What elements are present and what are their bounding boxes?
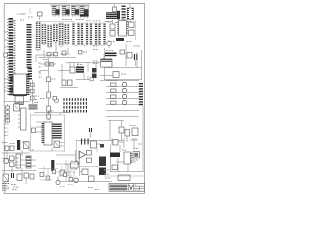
wire bc mesh — [56, 160, 78, 182]
transistor Q9 — [53, 97, 59, 103]
label top-right — [105, 22, 132, 23]
capacitor C1 — [47, 53, 51, 56]
wire h140 — [76, 140, 124, 142]
capacitor C3 — [60, 51, 70, 55]
capacitor C14 — [87, 139, 89, 145]
resistor R13 — [111, 101, 117, 104]
resistor R12 — [111, 95, 117, 98]
transistor Q5 — [122, 82, 126, 86]
wire mid net — [64, 160, 80, 176]
capacitor C13 — [84, 139, 86, 145]
IC U27 — [17, 140, 20, 150]
IC U19 — [12, 74, 28, 96]
capacitor bank C4-C6 — [31, 80, 35, 104]
IC U8 — [48, 25, 52, 49]
diode D3 — [119, 121, 124, 141]
label bc — [60, 185, 73, 187]
resistor R16 — [87, 151, 92, 156]
resistor R19 — [10, 156, 15, 161]
resistor network RN1 — [106, 11, 120, 20]
capacitor C18 — [64, 173, 67, 177]
resistor R22 — [30, 174, 34, 179]
label mid-left col — [39, 63, 43, 77]
wire top pins — [76, 76, 94, 81]
wire h170 — [2, 170, 36, 172]
U4 pin bar — [80, 15, 89, 17]
wire mid L — [36, 52, 55, 62]
transistor Q7 — [122, 94, 126, 98]
diode D2 — [107, 20, 115, 36]
wire long vert — [76, 150, 80, 176]
label left margin — [5, 32, 8, 47]
label bl rows — [2, 142, 34, 150]
resistor R28 — [112, 165, 118, 170]
wire mid bus2 — [58, 63, 100, 81]
wire hdr stub — [59, 113, 61, 115]
wire bc net — [38, 166, 58, 180]
wire band top — [36, 20, 74, 22]
IC U2 — [62, 6, 70, 17]
wire top bus — [50, 4, 90, 6]
IC U17 — [27, 24, 32, 68]
resistor R27 — [89, 176, 95, 182]
wire loop right — [105, 48, 142, 80]
crystal Y2 — [14, 101, 20, 111]
wire into U23 — [36, 122, 44, 132]
wire h1815 — [60, 181, 112, 183]
transistor Q10 — [74, 140, 99, 170]
oscillator X1 — [107, 40, 111, 48]
bridge rectifier BR2 — [24, 142, 30, 149]
pin header JP2 — [64, 98, 86, 112]
label rb2 — [132, 139, 142, 144]
regulator VR1 — [91, 141, 105, 152]
IC U5 — [127, 4, 133, 20]
relay K1 — [70, 67, 75, 73]
transistor Q8 — [122, 100, 126, 104]
resistor R20 — [10, 162, 15, 167]
wire long bus — [108, 120, 124, 122]
resistor R23 — [40, 173, 44, 177]
connector J3 — [139, 83, 143, 106]
wire rb top — [112, 138, 138, 152]
capacitor C8 — [127, 53, 132, 59]
connector J2 — [18, 108, 26, 130]
wire corner — [16, 8, 30, 14]
IC U29 — [122, 150, 131, 164]
IC U3 — [72, 6, 80, 17]
connector J4 — [16, 154, 21, 168]
resistor R10 — [111, 83, 117, 86]
wire bus mid — [38, 42, 76, 58]
label right-top — [110, 41, 132, 43]
diode D5 — [24, 173, 29, 184]
capacitor C7 — [120, 50, 125, 54]
transistor Q4 — [56, 177, 60, 185]
diode D1 — [40, 60, 56, 67]
capacitor C17 — [79, 51, 88, 55]
wire hbus1 — [5, 100, 31, 102]
resistor R17 — [87, 158, 92, 163]
relay K2 — [26, 156, 31, 168]
IC U11 — [65, 24, 69, 46]
wire mid L2 — [40, 71, 48, 76]
wire h153 — [2, 152, 30, 154]
IC U18 — [28, 68, 33, 80]
IC U10 — [59, 23, 63, 48]
connector J5 — [104, 175, 144, 181]
wire under U22 — [100, 76, 118, 81]
crystal Y3 — [52, 141, 65, 151]
IC U15 — [99, 23, 106, 47]
IC U14 — [90, 23, 97, 47]
IC U4 — [80, 6, 89, 19]
wire right riser — [110, 106, 143, 172]
capacitor C19 — [32, 128, 36, 133]
resistor R14 — [125, 130, 130, 143]
wire h155 — [56, 154, 76, 156]
transistor Q3 — [4, 159, 9, 164]
IC U21 — [118, 17, 127, 36]
diode D4 — [80, 169, 88, 175]
label mid cluster — [35, 96, 45, 100]
resistor network RN3 — [29, 103, 39, 110]
transistor Q2 — [74, 178, 79, 183]
IC U25 — [99, 157, 106, 167]
sub-circuit boundary — [30, 115, 64, 151]
label rb — [133, 149, 139, 161]
wire right net — [126, 44, 140, 66]
inductor L1 — [71, 162, 79, 168]
bridge rectifier BR1 — [3, 174, 9, 182]
IC U13 — [81, 23, 88, 47]
capacitor C9 C10 — [135, 54, 137, 66]
IC U23 — [43, 122, 57, 145]
transistor Q6 — [122, 88, 126, 92]
connector J1 — [121, 6, 125, 21]
transistor Q1 — [60, 80, 78, 88]
jumper JP1 — [4, 53, 9, 57]
IC U22 — [93, 54, 112, 67]
title block — [109, 184, 145, 192]
IC U12 — [73, 23, 80, 47]
capacitor C16 — [113, 140, 124, 146]
label pins left — [5, 79, 9, 91]
resistor R26 — [38, 12, 43, 20]
IC U26 — [99, 168, 106, 176]
IC U30 — [76, 65, 84, 80]
resistor R11 — [111, 89, 117, 92]
resistor R15 — [130, 126, 138, 136]
wire above box — [34, 111, 70, 113]
label U22 top — [93, 46, 98, 50]
capacitor C15 — [12, 173, 14, 178]
resistor pack RN2 — [92, 68, 97, 78]
IC U1 — [52, 6, 60, 17]
IC U6 — [36, 22, 40, 52]
resistor R9 — [113, 72, 127, 78]
label corner — [20, 14, 33, 20]
ferrite bead FB3 — [116, 38, 124, 41]
ferrite bead FB2 — [110, 153, 120, 158]
IC U28 — [51, 160, 54, 171]
label bl text — [2, 184, 19, 191]
diode D6 — [133, 152, 140, 159]
fuse F1 — [5, 146, 14, 151]
IC U9 — [53, 24, 57, 44]
wire bl net — [2, 150, 36, 176]
capacitor C11 — [90, 128, 92, 138]
resistor R24 — [46, 176, 50, 180]
wire rb net — [110, 145, 144, 172]
label under bus — [88, 188, 99, 190]
resistor chain R5-R8 — [47, 58, 56, 120]
capacitor C21 — [129, 20, 136, 40]
resistor R25 — [69, 178, 73, 182]
capacitor C20 — [53, 170, 56, 174]
resistor R21 — [17, 174, 22, 181]
resistor stack R1-R4 — [6, 104, 10, 123]
wire harness rows — [106, 81, 139, 117]
ferrite bead FB1 — [105, 51, 117, 57]
label U1-U4 — [62, 20, 101, 21]
IC U20 — [15, 96, 24, 105]
capacitor C2 — [54, 53, 58, 56]
connector P1 — [8, 18, 16, 96]
IC U7 — [42, 24, 46, 46]
label net rows — [5, 116, 9, 136]
crystal Y1 — [113, 4, 117, 12]
op-amp U24 — [79, 151, 86, 159]
capacitor C12 — [81, 139, 83, 145]
label bottom mid — [104, 170, 111, 178]
resistor R18 — [60, 170, 65, 175]
